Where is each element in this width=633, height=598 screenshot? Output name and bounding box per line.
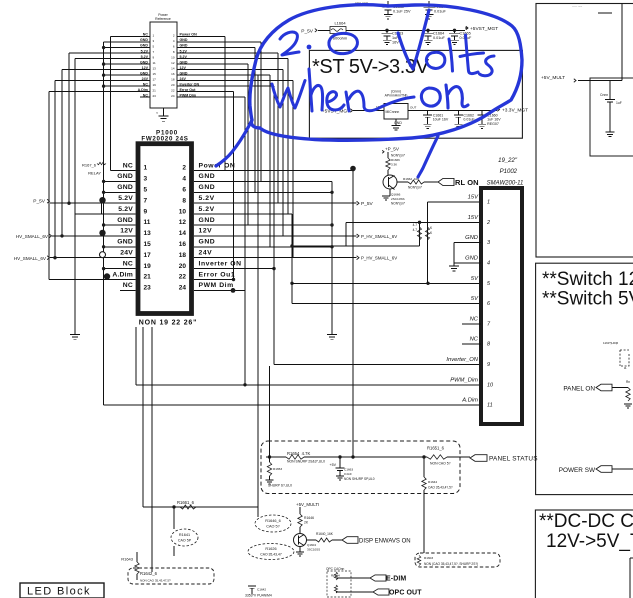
svg-text:A.Dim: A.Dim xyxy=(112,271,133,278)
svg-text:0.01uF: 0.01uF xyxy=(433,36,446,40)
svg-text:16: 16 xyxy=(171,72,175,76)
svg-text:1163*|HD|6: 1163*|HD|6 xyxy=(603,341,619,345)
svg-text:GND: GND xyxy=(117,173,133,180)
svg-text:Inverter_ON: Inverter_ON xyxy=(446,357,478,363)
svg-text:NON SHURP SP,UL0: NON SHURP SP,UL0 xyxy=(344,477,375,481)
svg-text:16V: 16V xyxy=(392,41,399,45)
svg-text:3: 3 xyxy=(153,39,155,43)
svg-text:11: 11 xyxy=(153,61,156,65)
svg-text:OPC CAOnn: OPC CAOnn xyxy=(326,567,344,571)
svg-text:15V: 15V xyxy=(468,215,479,221)
svg-text:NC: NC xyxy=(123,282,133,289)
svg-text:**DC-DC CON: **DC-DC CON xyxy=(539,511,633,532)
svg-text:NC: NC xyxy=(123,162,133,169)
svg-text:7: 7 xyxy=(153,50,155,54)
svg-text:12V: 12V xyxy=(199,228,213,235)
svg-text:NON CAO 35,43,47,5?: NON CAO 35,43,47,5? xyxy=(140,579,171,583)
svg-text:21: 21 xyxy=(144,274,152,281)
svg-text:15: 15 xyxy=(144,241,152,248)
svg-text:Reference: Reference xyxy=(155,17,171,21)
svg-text:E-DIM: E-DIM xyxy=(386,576,406,583)
svg-text:PANEL ON: PANEL ON xyxy=(563,386,595,393)
svg-text:5V: 5V xyxy=(471,296,479,302)
svg-text:5.2V: 5.2V xyxy=(199,206,215,213)
svg-text:5.2V: 5.2V xyxy=(199,195,215,202)
svg-text:0.01uF: 0.01uF xyxy=(434,10,447,14)
svg-text:+5VST_MGT: +5VST_MGT xyxy=(470,26,498,32)
svg-text:GND: GND xyxy=(117,217,133,224)
svg-text:NC: NC xyxy=(470,337,479,343)
svg-text:Error Ou1: Error Ou1 xyxy=(199,271,236,278)
svg-text:22: 22 xyxy=(171,89,175,93)
svg-text:K: K xyxy=(430,226,433,230)
svg-text:P1002: P1002 xyxy=(500,169,518,175)
svg-text:9: 9 xyxy=(487,362,490,368)
svg-text:12V->5V_TU: 12V->5V_TU xyxy=(546,531,633,552)
svg-text:+5V_MULTI: +5V_MULTI xyxy=(296,502,319,507)
svg-text:PWM Dim: PWM Dim xyxy=(199,282,234,289)
svg-text:4.7: 4.7 xyxy=(413,228,418,232)
svg-text:18: 18 xyxy=(179,252,187,259)
svg-text:17: 17 xyxy=(153,77,157,81)
svg-text:0.1uF 25V: 0.1uF 25V xyxy=(393,10,411,14)
svg-text:12V: 12V xyxy=(120,228,133,235)
svg-text:10: 10 xyxy=(179,208,187,215)
svg-text:22: 22 xyxy=(179,274,187,281)
svg-text:5.2V: 5.2V xyxy=(118,206,133,213)
svg-text:12: 12 xyxy=(179,219,187,226)
svg-text:PWM_Dim: PWM_Dim xyxy=(450,377,478,383)
svg-text:+3.3V_MGT: +3.3V_MGT xyxy=(502,108,528,114)
svg-text:3353*V PU4N/M4: 3353*V PU4N/M4 xyxy=(245,594,272,598)
svg-text:20: 20 xyxy=(171,83,175,87)
svg-text:13: 13 xyxy=(144,230,152,237)
svg-text:SHURP S?,UL0: SHURP S?,UL0 xyxy=(268,484,292,488)
svg-text:GND: GND xyxy=(394,121,402,125)
svg-text:RL ON: RL ON xyxy=(455,178,479,187)
svg-text:LED Block: LED Block xyxy=(27,586,91,598)
svg-text:14: 14 xyxy=(171,66,175,70)
svg-text:CAO 35,43,4?,5?: CAO 35,43,4?,5? xyxy=(428,486,453,490)
svg-text:19_22": 19_22" xyxy=(498,158,518,164)
svg-text:10: 10 xyxy=(487,382,494,388)
svg-text:2: 2 xyxy=(182,165,186,172)
svg-text:9: 9 xyxy=(153,55,155,59)
svg-text:16: 16 xyxy=(179,241,187,248)
svg-text:**Switch 12: **Switch 12 xyxy=(542,269,633,290)
svg-text:1: 1 xyxy=(487,200,490,206)
svg-text:R1603: R1603 xyxy=(424,556,433,560)
svg-text:R1640_16K: R1640_16K xyxy=(316,532,334,536)
svg-text:2: 2 xyxy=(486,220,490,226)
svg-text:9: 9 xyxy=(144,208,148,215)
svg-text:24V: 24V xyxy=(199,250,213,257)
svg-text:GND: GND xyxy=(199,184,216,191)
svg-text:1: 1 xyxy=(153,33,155,37)
svg-text:+P_5V: +P_5V xyxy=(385,147,400,152)
svg-text:GND: GND xyxy=(117,239,133,246)
svg-text:GND: GND xyxy=(465,235,478,241)
svg-text:20: 20 xyxy=(179,263,187,270)
svg-text:POWER SW: POWER SW xyxy=(559,467,596,474)
svg-text:R167_6: R167_6 xyxy=(82,163,97,168)
svg-text:CAO 5P: CAO 5P xyxy=(178,539,192,543)
svg-text:5: 5 xyxy=(153,44,155,48)
svg-text:24V: 24V xyxy=(120,250,133,257)
svg-text:R1651_6: R1651_6 xyxy=(427,446,445,451)
svg-text:7: 7 xyxy=(144,197,148,204)
svg-text:HV_SMALL_6V: HV_SMALL_6V xyxy=(14,256,47,261)
svg-text:5V: 5V xyxy=(471,276,479,282)
svg-text:NON (CAO 35,43,47,5?, SHURP 2S: NON (CAO 35,43,47,5?, SHURP 2S?) xyxy=(424,562,478,566)
svg-text:1uF: 1uF xyxy=(616,101,622,105)
svg-text:23: 23 xyxy=(153,94,157,98)
svg-text:APnnnHnnTNh: APnnnHnnTNh xyxy=(385,94,408,98)
svg-text:OUT: OUT xyxy=(410,106,417,110)
svg-text:2K: 2K xyxy=(304,521,309,525)
svg-text:NC: NC xyxy=(470,316,479,322)
svg-text:2SC10SS: 2SC10SS xyxy=(391,197,405,201)
svg-text:REG07: REG07 xyxy=(487,122,499,126)
svg-text:C1664: C1664 xyxy=(433,32,444,36)
svg-text:Q1666: Q1666 xyxy=(391,193,401,197)
svg-text:L1664: L1664 xyxy=(334,21,346,26)
svg-text:10uF 16V: 10uF 16V xyxy=(433,118,449,122)
svg-text:R1644: R1644 xyxy=(428,480,437,484)
svg-text:GND: GND xyxy=(199,239,216,246)
svg-text:GND: GND xyxy=(199,173,216,180)
svg-text:P_5V: P_5V xyxy=(301,29,314,35)
svg-text:10: 10 xyxy=(171,55,175,59)
svg-text:..... .....: ..... ..... xyxy=(572,4,582,8)
svg-text:R1646_6: R1646_6 xyxy=(265,519,280,523)
svg-text:4: 4 xyxy=(487,260,490,266)
svg-text:+5V_MULT: +5V_MULT xyxy=(541,75,565,81)
svg-text:15V: 15V xyxy=(468,195,479,201)
svg-text:R1654 4.7K: R1654 4.7K xyxy=(287,451,310,456)
svg-text:24: 24 xyxy=(179,285,187,292)
svg-text:A.Dim: A.Dim xyxy=(461,398,478,404)
svg-text:15: 15 xyxy=(153,72,157,76)
svg-text:GND: GND xyxy=(117,184,133,191)
svg-text:8: 8 xyxy=(182,197,186,204)
svg-text:P_HV_SMALL_6V: P_HV_SMALL_6V xyxy=(361,256,397,261)
svg-text:5.2V: 5.2V xyxy=(118,195,133,202)
svg-text:R1666: R1666 xyxy=(391,158,400,162)
svg-text:Cnnn: Cnnn xyxy=(600,93,608,97)
svg-text:C1642: C1642 xyxy=(257,588,266,592)
svg-text:OPC OUT: OPC OUT xyxy=(389,590,422,597)
svg-text:u: u xyxy=(156,111,158,115)
svg-text:SMAW200-11: SMAW200-11 xyxy=(487,181,524,187)
svg-text:+5V: +5V xyxy=(330,463,337,467)
svg-text:24: 24 xyxy=(171,94,175,98)
svg-text:R1641: R1641 xyxy=(179,533,190,537)
svg-text:a.: a. xyxy=(624,366,627,370)
svg-text:MICnnnn: MICnnnn xyxy=(386,110,400,114)
svg-text:Inverter ON: Inverter ON xyxy=(199,260,242,267)
svg-text:R1653: R1653 xyxy=(273,467,282,471)
svg-text:P_HV_SMALL_6V: P_HV_SMALL_6V xyxy=(361,234,397,239)
svg-text:23: 23 xyxy=(144,285,152,292)
svg-text:4: 4 xyxy=(173,39,175,43)
svg-text:C1663: C1663 xyxy=(344,468,353,472)
svg-text:CAO 5?: CAO 5? xyxy=(266,525,280,529)
svg-text:3SC10SS: 3SC10SS xyxy=(307,548,320,552)
svg-text:5: 5 xyxy=(144,187,148,194)
svg-text:R1626: R1626 xyxy=(265,547,276,551)
svg-text:11: 11 xyxy=(144,219,151,226)
svg-text:8: 8 xyxy=(173,50,175,54)
svg-text:PANEL STATUS: PANEL STATUS xyxy=(489,456,538,463)
svg-text:19: 19 xyxy=(153,83,157,87)
svg-text:CAO 35,43,47: CAO 35,43,47 xyxy=(260,553,282,557)
svg-text:18: 18 xyxy=(171,77,175,81)
svg-text:P_5V: P_5V xyxy=(361,201,374,207)
svg-text:NON 19 22 26": NON 19 22 26" xyxy=(139,320,197,327)
svg-text:1: 1 xyxy=(144,165,148,172)
svg-text:GND: GND xyxy=(199,217,216,224)
svg-text:14: 14 xyxy=(179,230,187,237)
svg-text:R1642_6: R1642_6 xyxy=(140,571,158,576)
svg-text:0.0nF: 0.0nF xyxy=(344,472,352,476)
svg-text:17: 17 xyxy=(144,252,152,259)
svg-text:Rn: Rn xyxy=(626,380,630,384)
svg-text:RELAY: RELAY xyxy=(88,171,101,176)
svg-text:GND: GND xyxy=(465,255,478,261)
svg-text:6: 6 xyxy=(173,44,175,48)
svg-text:DISP ENWAVS ON: DISP ENWAVS ON xyxy=(359,539,411,545)
svg-text:**Switch 5V(: **Switch 5V( xyxy=(542,289,633,310)
svg-text:K: K xyxy=(430,231,433,235)
svg-text:4.7: 4.7 xyxy=(413,223,418,227)
svg-text:HV_SMALL_6V: HV_SMALL_6V xyxy=(16,234,49,239)
svg-text:12: 12 xyxy=(171,61,175,65)
svg-text:R1646: R1646 xyxy=(304,516,314,520)
svg-text:P_5V: P_5V xyxy=(33,199,46,205)
svg-text:NON*(sn*: NON*(sn* xyxy=(408,186,423,190)
svg-text:11: 11 xyxy=(487,403,493,409)
svg-text:R1661_6: R1661_6 xyxy=(177,500,195,505)
svg-text:4: 4 xyxy=(182,176,186,183)
svg-text:NON CAO 5?: NON CAO 5? xyxy=(430,462,451,466)
svg-text:2: 2 xyxy=(173,33,175,37)
svg-text:13: 13 xyxy=(153,66,157,70)
svg-text:3: 3 xyxy=(144,176,148,183)
svg-text:6: 6 xyxy=(182,187,186,194)
svg-text:21: 21 xyxy=(153,89,157,93)
svg-text:3.3K: 3.3K xyxy=(391,163,397,167)
svg-text:NC: NC xyxy=(123,260,133,267)
svg-text:NON*(sn*: NON*(sn* xyxy=(391,202,406,206)
svg-text:R1643: R1643 xyxy=(121,557,134,562)
svg-text:Q1604: Q1604 xyxy=(307,543,316,547)
svg-text:19: 19 xyxy=(144,263,152,270)
svg-text:NON SNURP 2S&3*,UL0: NON SNURP 2S&3*,UL0 xyxy=(287,460,325,464)
svg-text:NON*(sn*: NON*(sn* xyxy=(391,154,406,158)
